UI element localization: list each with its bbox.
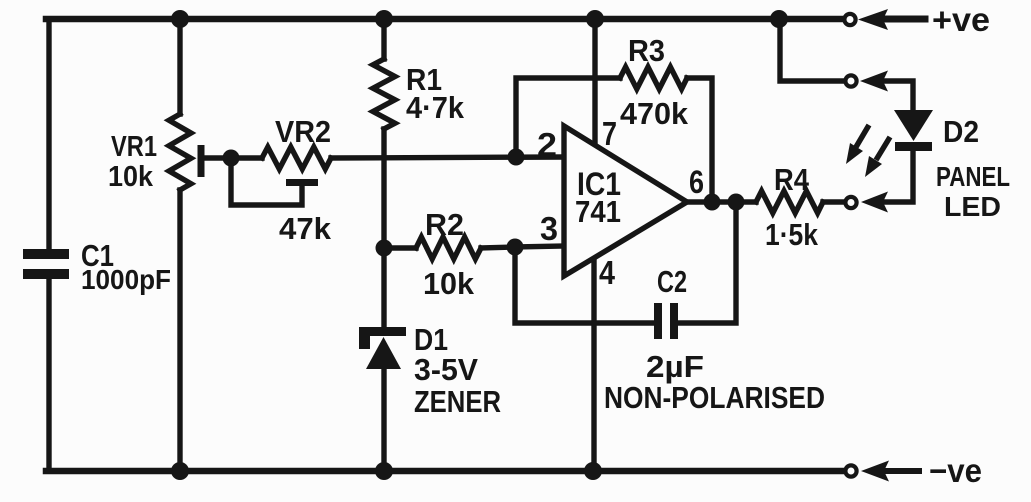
LED light arrow lower bbox=[865, 137, 890, 177]
svg-text:2µF: 2µF bbox=[646, 349, 704, 384]
svg-text:C2: C2 bbox=[657, 264, 687, 299]
arrowhead LED feed bbox=[860, 71, 888, 92]
LED D2 cathode bar bbox=[895, 142, 932, 151]
terminal circle -ve bbox=[845, 465, 856, 476]
wire VR2 right lead to pin 2 bbox=[331, 157, 564, 158]
node dot output / R3 bbox=[704, 194, 721, 211]
wire R3 right lead down to output bbox=[687, 78, 712, 202]
potentiometer VR2 tap bar bbox=[286, 179, 318, 186]
wire D1 bottom lead bbox=[381, 368, 386, 471]
wire LED cathode to R4 terminal bbox=[884, 151, 913, 202]
svg-text:47k: 47k bbox=[279, 211, 332, 246]
capacitor C1 bottom plate bbox=[23, 269, 69, 279]
svg-text:10k: 10k bbox=[108, 161, 154, 193]
svg-text:R3: R3 bbox=[628, 33, 665, 68]
node dot pin 3 bbox=[507, 239, 524, 256]
node dot R2 / D1 bbox=[376, 240, 393, 257]
svg-text:D2: D2 bbox=[943, 114, 979, 149]
op-amp IC1 triangle bbox=[564, 126, 687, 276]
LED light arrow upper bbox=[846, 125, 869, 164]
resistor R4 zigzag bbox=[756, 191, 823, 213]
svg-text:470k: 470k bbox=[620, 96, 689, 131]
svg-text:4·7k: 4·7k bbox=[406, 90, 465, 125]
potentiometer VR1 zigzag bbox=[169, 114, 191, 190]
capacitor C1 top plate bbox=[23, 249, 69, 259]
svg-text:3-5V: 3-5V bbox=[414, 352, 478, 387]
svg-text:ZENER: ZENER bbox=[414, 384, 501, 419]
capacitor C2 left plate bbox=[654, 303, 662, 339]
node dot bottom rail / VR1 bbox=[171, 462, 189, 480]
wire +ve rail drop to LED row bbox=[780, 19, 843, 81]
svg-text:NON-POLARISED: NON-POLARISED bbox=[604, 380, 825, 415]
svg-text:4: 4 bbox=[599, 254, 616, 291]
terminal circle LED cathode bbox=[845, 197, 856, 208]
resistor R2 zigzag bbox=[416, 237, 481, 259]
resistor R1 zigzag bbox=[373, 59, 395, 129]
node dot top rail / R1 bbox=[375, 10, 393, 28]
svg-text:R2: R2 bbox=[425, 207, 464, 242]
svg-text:1·5k: 1·5k bbox=[765, 217, 819, 252]
wire top +ve rail bbox=[46, 16, 843, 23]
svg-text:VR2: VR2 bbox=[275, 114, 331, 149]
wire pin 3 node down to C2 left bbox=[515, 247, 654, 323]
svg-text:2: 2 bbox=[537, 126, 557, 163]
LED D2 triangle bbox=[894, 110, 933, 141]
potentiometer VR2 zigzag bbox=[262, 147, 331, 169]
zener D1 triangle bbox=[366, 337, 401, 369]
svg-text:+ve: +ve bbox=[932, 1, 990, 38]
wire pin 3 stub bbox=[515, 246, 564, 247]
wire pin 7 to +ve rail bbox=[592, 19, 597, 147]
resistor R3 zigzag bbox=[620, 67, 687, 89]
svg-text:741: 741 bbox=[575, 194, 621, 229]
node dot wiper junction bbox=[223, 150, 240, 167]
wire output pin 6 to R4 bbox=[687, 199, 756, 204]
svg-text:PANEL: PANEL bbox=[936, 161, 1010, 192]
wire VR2 left lead bbox=[231, 155, 262, 160]
wire R1 bottom lead to R2 node bbox=[381, 129, 386, 248]
node dot bottom rail / pin 4 bbox=[584, 462, 602, 480]
arrowhead -ve bbox=[861, 461, 889, 482]
svg-text:10k: 10k bbox=[423, 266, 475, 301]
zener D1 bar left tab bbox=[359, 327, 370, 349]
terminal circle +ve bbox=[844, 14, 855, 25]
wire R2 left lead bbox=[384, 245, 416, 250]
wire VR1 branch top lead bbox=[177, 19, 182, 114]
wire VR1 wiper stem bbox=[204, 155, 231, 160]
terminal circle LED anode bbox=[845, 75, 856, 86]
svg-text:LED: LED bbox=[944, 191, 1001, 222]
node dot top rail / LED branch bbox=[770, 10, 788, 28]
wire VR1 branch bottom lead bbox=[177, 190, 182, 471]
svg-text:6: 6 bbox=[689, 164, 704, 200]
node dot output / C2 bbox=[728, 194, 745, 211]
wire R2 right lead to pin 3 node bbox=[481, 247, 515, 248]
svg-text:−ve: −ve bbox=[929, 452, 982, 489]
node dot bottom rail / D1 bbox=[375, 462, 393, 480]
zener D1 cathode bar bbox=[360, 327, 406, 336]
wire R4 right lead bbox=[823, 199, 843, 204]
svg-text:1000pF: 1000pF bbox=[81, 264, 171, 295]
svg-text:R4: R4 bbox=[774, 162, 810, 197]
wire R1 top lead bbox=[381, 19, 386, 59]
arrowhead +ve bbox=[858, 9, 888, 30]
wire pin 2 node up and over to R3 left bbox=[516, 78, 620, 157]
arrowhead R4 terminal bbox=[861, 192, 888, 213]
node dot top rail / pin 7 bbox=[586, 10, 604, 28]
wire +ve arrow tail bbox=[884, 16, 925, 23]
node dot top rail / VR1 bbox=[171, 10, 189, 28]
wire bottom -ve rail bbox=[46, 468, 844, 475]
wire LED anode feed bbox=[884, 81, 913, 110]
capacitor C2 right plate bbox=[670, 303, 678, 339]
node dot pin 2 bbox=[508, 149, 525, 166]
wire R2 node down to zener D1 bbox=[381, 248, 386, 327]
wire wiper node down-right to VR2 tap bbox=[231, 158, 302, 205]
svg-text:7: 7 bbox=[602, 115, 617, 152]
wire -ve arrow tail bbox=[885, 468, 919, 474]
svg-text:VR1: VR1 bbox=[111, 131, 157, 163]
wire C2 right lead up to output bbox=[678, 202, 736, 323]
svg-text:3: 3 bbox=[540, 210, 558, 247]
potentiometer VR1 wiper bar bbox=[198, 145, 205, 177]
wire left vertical rail bbox=[46, 19, 51, 471]
wire pin 4 to -ve rail bbox=[591, 253, 596, 471]
